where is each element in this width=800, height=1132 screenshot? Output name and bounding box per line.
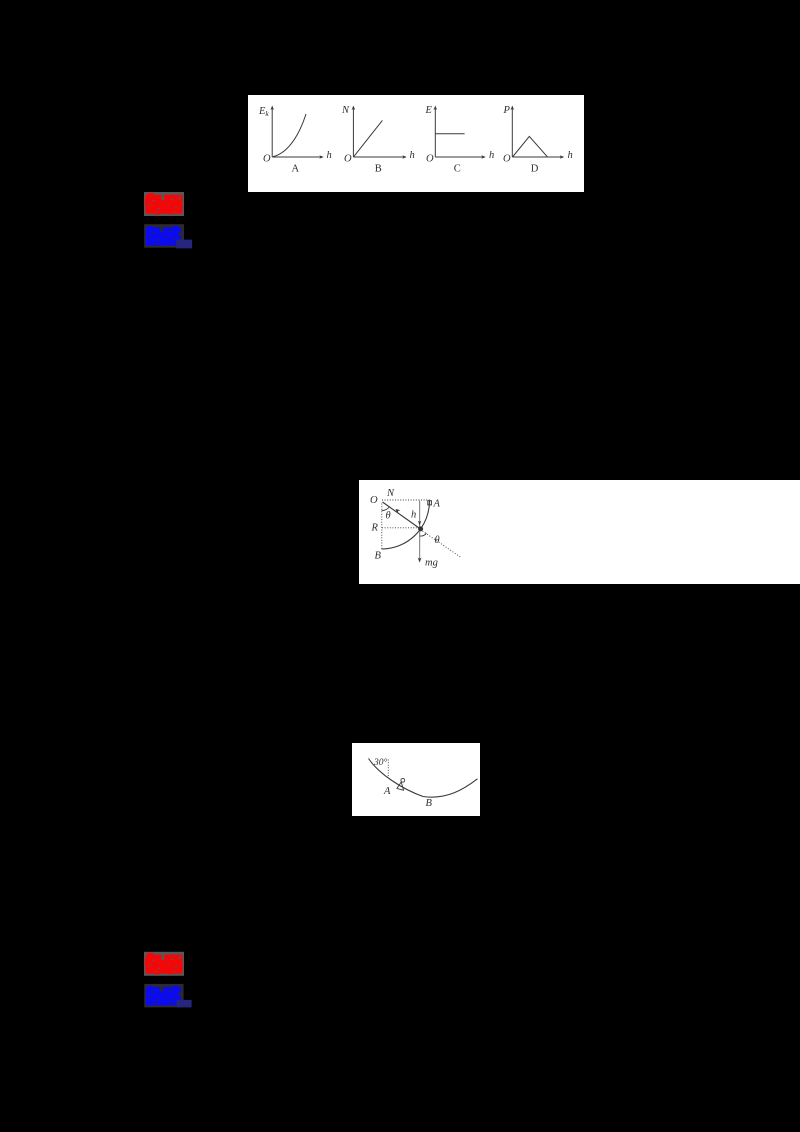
svg-text:O: O: [263, 154, 271, 165]
graph D x-axis arrowhead: [560, 155, 565, 159]
figure band 2: circular arc with ball: [359, 480, 800, 584]
graph B line N(h): [354, 120, 383, 156]
svg-text:O: O: [503, 154, 511, 165]
svg-text:N: N: [341, 105, 350, 116]
valley curve: [369, 759, 478, 798]
graph A y-axis: [271, 108, 273, 157]
graph C y-axis: [434, 108, 436, 157]
svg-text:h: h: [568, 150, 573, 161]
dotted vertical at 30 degrees: [387, 760, 389, 778]
dotted line O down to B: [381, 503, 383, 549]
ball: [418, 526, 423, 531]
answer red glyphs 1: [145, 193, 183, 215]
svg-text:O: O: [370, 495, 378, 506]
graph C x-axis: [435, 156, 483, 158]
graph D triangle P(h): [513, 136, 548, 157]
svg-text:B: B: [375, 550, 382, 561]
graph D y-axis: [511, 108, 513, 157]
theta arc at O: [382, 506, 390, 510]
graph A x-axis arrowhead: [319, 155, 324, 159]
mg arrowhead: [418, 557, 422, 562]
svg-text:O: O: [426, 154, 434, 165]
svg-text:R: R: [371, 522, 379, 533]
answer red glyphs 2: [145, 953, 183, 975]
dotted line at R level to ball: [382, 526, 419, 528]
analysis blue glyphs 1: [146, 226, 181, 246]
svg-text:D: D: [531, 164, 539, 175]
graph B x-axis: [353, 156, 404, 158]
svg-text:B: B: [375, 164, 382, 175]
analysis dark box 1: [144, 224, 184, 248]
skier head: [401, 778, 405, 782]
dotted extension of radius beyond ball: [423, 531, 462, 558]
graph D y-axis arrowhead: [511, 106, 515, 111]
svg-text:P: P: [503, 105, 511, 116]
answer gray box 1: [144, 192, 184, 216]
svg-text:A: A: [292, 164, 300, 175]
arc A to B: [382, 501, 430, 549]
graph D x-axis: [512, 156, 561, 158]
h arrowhead above ball: [418, 520, 421, 525]
svg-text:C: C: [454, 164, 461, 175]
graph A x-axis: [272, 156, 321, 158]
h measuring line / mg line (gray): [419, 500, 421, 560]
graph C horizontal line E(h): [435, 133, 464, 135]
radius line O to ball: [383, 502, 421, 529]
svg-text:A: A: [433, 498, 441, 509]
svg-text:E: E: [425, 105, 433, 116]
skier body: [397, 782, 404, 790]
navy highlight box 2: [177, 1000, 192, 1008]
block square at A: [428, 500, 432, 504]
N arrowhead on radius: [396, 509, 401, 513]
svg-text:Ek: Ek: [258, 106, 269, 118]
graph B y-axis arrowhead: [352, 106, 356, 111]
navy highlight box 1: [176, 240, 192, 249]
theta arc at ball: [420, 533, 426, 536]
graph B y-axis: [352, 108, 354, 157]
svg-text:A: A: [383, 786, 391, 797]
graph A curve Ek(h): [273, 114, 306, 157]
answer gray box 2: [144, 952, 184, 976]
answer/analysis labels (both groups): [0, 0, 1, 1]
svg-text:O: O: [344, 154, 352, 165]
svg-text:mg: mg: [425, 557, 438, 568]
svg-text:θ: θ: [435, 535, 440, 546]
svg-text:30°: 30°: [373, 757, 388, 768]
figure band 3: valley curve with skier: [352, 743, 480, 816]
svg-text:h: h: [489, 150, 494, 161]
graph C y-axis arrowhead: [434, 106, 438, 111]
analysis blue glyphs 2: [146, 986, 181, 1006]
svg-text:h: h: [327, 150, 332, 161]
svg-text:h: h: [410, 150, 415, 161]
svg-text:B: B: [426, 798, 433, 809]
dotted line O to A: [382, 499, 430, 501]
graph C x-axis arrowhead: [481, 155, 486, 159]
svg-text:N: N: [386, 488, 395, 499]
svg-text:h: h: [411, 509, 416, 520]
analysis dark box 2: [144, 984, 183, 1008]
graph B x-axis arrowhead: [402, 155, 407, 159]
graph A y-axis arrowhead: [270, 106, 274, 111]
figure band 1: four answer-choice graphs: [248, 95, 584, 192]
svg-text:θ: θ: [386, 510, 391, 521]
